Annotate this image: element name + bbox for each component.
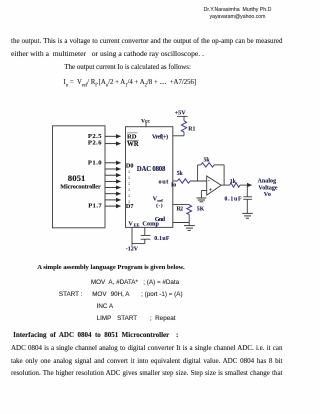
svg-text:Vcc: Vcc xyxy=(141,118,151,124)
svg-text:0.1uF: 0.1uF xyxy=(154,236,170,242)
svg-text:EE: EE xyxy=(134,223,140,228)
svg-text:P1.7: P1.7 xyxy=(88,203,102,210)
svg-text:+5V: +5V xyxy=(175,109,187,116)
svg-text:RD: RD xyxy=(127,134,137,141)
svg-text:8051: 8051 xyxy=(68,173,86,183)
svg-text:R1: R1 xyxy=(188,126,195,132)
svg-text:+: + xyxy=(209,188,213,194)
svg-text:Microcontroller: Microcontroller xyxy=(60,183,101,190)
svg-text:Comp: Comp xyxy=(142,221,159,228)
svg-text::: : xyxy=(128,199,130,205)
svg-text:0.1uF: 0.1uF xyxy=(225,197,243,203)
svg-text:out: out xyxy=(159,178,170,185)
svg-text:(-): (-) xyxy=(156,202,163,209)
svg-text:-: - xyxy=(208,177,210,184)
svg-text:Vref(+): Vref(+) xyxy=(152,133,168,140)
svg-text:Io: Io xyxy=(171,183,176,189)
svg-text:1k: 1k xyxy=(230,179,237,185)
svg-text:P2.6: P2.6 xyxy=(88,139,102,146)
svg-text:5k: 5k xyxy=(204,157,211,163)
svg-text:WR: WR xyxy=(127,141,139,148)
svg-text:R2: R2 xyxy=(177,206,184,212)
svg-text:Vo: Vo xyxy=(264,192,271,198)
svg-text:P1.0: P1.0 xyxy=(88,160,102,167)
svg-text:5k: 5k xyxy=(177,171,184,177)
svg-text:Analog: Analog xyxy=(258,179,277,185)
svg-text:DAC 0808: DAC 0808 xyxy=(137,166,166,173)
svg-text:-12V: -12V xyxy=(126,247,139,253)
svg-text:Voltage: Voltage xyxy=(258,186,278,192)
svg-text:5K: 5K xyxy=(197,206,205,212)
